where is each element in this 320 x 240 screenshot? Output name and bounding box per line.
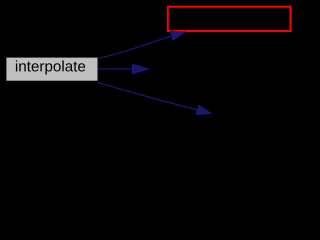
arrowhead: top edge bbox=[170, 31, 185, 41]
node: interpolate (current function, grey box) bbox=[6, 58, 97, 81]
arrowhead: bottom edge bbox=[196, 105, 211, 115]
arrowhead: middle edge bbox=[132, 64, 148, 74]
node: truncated callee (red outlined box, empty) bbox=[168, 7, 291, 31]
edge: interpolate -> middle hidden node (wire) bbox=[98, 68, 133, 70]
label: "interpolate" (Liberation Sans 15.2px, outlined) bbox=[16, 60, 85, 74]
edge: interpolate -> bottom hidden node (wire, gentle spline) bbox=[98, 82, 198, 110]
edge: interpolate -> top truncated node (wire, gentle spline) bbox=[98, 36, 172, 58]
